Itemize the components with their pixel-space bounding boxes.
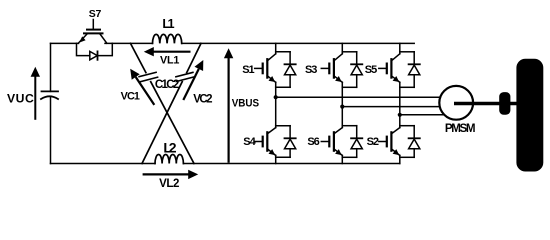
svg-text:S7: S7	[89, 8, 102, 20]
svg-text:C1C2: C1C2	[155, 79, 179, 91]
svg-text:VC1: VC1	[121, 91, 140, 103]
svg-text:VBUS: VBUS	[232, 98, 260, 110]
svg-text:S2: S2	[367, 136, 379, 148]
svg-text:S4: S4	[243, 136, 256, 148]
svg-text:S5: S5	[365, 64, 377, 76]
svg-text:L2: L2	[163, 140, 176, 156]
svg-text:S3: S3	[305, 64, 317, 76]
svg-text:L1: L1	[162, 17, 174, 31]
svg-text:VL2: VL2	[159, 178, 179, 190]
svg-text:PMSM: PMSM	[445, 122, 476, 135]
svg-text:VL1: VL1	[160, 55, 179, 67]
svg-text:S6: S6	[307, 136, 319, 148]
svg-text:S1: S1	[242, 64, 254, 76]
svg-text:VC2: VC2	[193, 93, 212, 105]
svg-text:VUC: VUC	[7, 92, 34, 106]
